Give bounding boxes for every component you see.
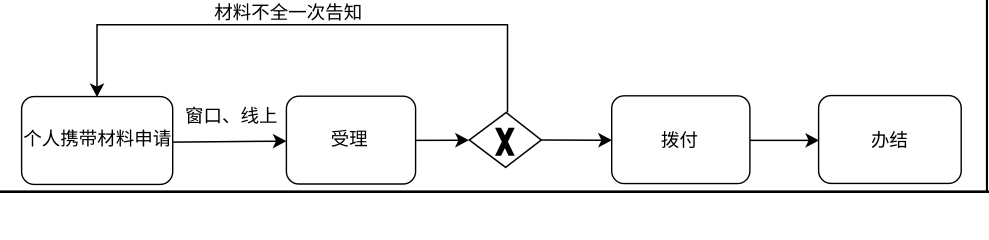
label: 窗口、线上 (on wire box1→box2) <box>186 107 276 124</box>
wire: box3 to box4 <box>750 139 811 141</box>
wire: box1 to box2 <box>173 140 278 143</box>
wire: box2 to gateway <box>416 139 461 141</box>
wire: gateway to box3 <box>541 139 604 141</box>
label: 材料不全一次告知 (on feedback wire) <box>215 3 361 20</box>
arrowhead: feedback into box1 (points down) <box>90 84 103 97</box>
arrowhead: into box4 <box>806 134 819 147</box>
arrowhead: into box2 <box>273 134 286 147</box>
arrowhead: into gateway <box>456 134 469 147</box>
process box3: 拨付 <box>612 96 750 184</box>
table border: bottom edge <box>0 190 989 193</box>
gateway: exclusive X diamond <box>469 113 541 168</box>
wire: feedback connector from gateway top to box1 top <box>97 25 508 113</box>
process box2: 受理 <box>286 96 415 184</box>
process box1: 个人携带材料申请 <box>22 97 173 185</box>
arrowhead: into box3 <box>599 134 612 147</box>
process box4: 办结 <box>819 96 962 184</box>
table border: right edge <box>986 0 988 193</box>
